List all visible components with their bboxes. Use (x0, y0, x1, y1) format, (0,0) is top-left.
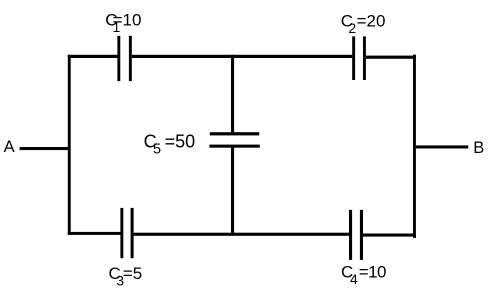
svg-text:A: A (4, 138, 15, 156)
capacitor C4 (349, 210, 363, 260)
capacitor C1 (117, 36, 131, 81)
label C2 = 20 (341, 12, 386, 36)
svg-text:=10: =10 (113, 11, 142, 30)
svg-text:2: 2 (348, 20, 356, 36)
svg-text:4: 4 (350, 271, 358, 287)
wire: top rail, left segment (left branch to C1) (68, 55, 118, 58)
wire: middle vertical branch, lower segment (C5 to bottom-center node) (231, 147, 234, 236)
wire: top rail, middle segment (C1 to C2 through top-center node) (132, 55, 352, 58)
svg-text:=10: =10 (359, 262, 386, 281)
node A terminal label (4, 138, 15, 156)
wire: stub from right branch to node B (416, 145, 468, 148)
svg-text:B: B (473, 139, 484, 157)
wire: bottom rail, left segment (left branch to C3) (68, 232, 121, 235)
svg-text:5: 5 (153, 141, 161, 157)
svg-text:=5: =5 (123, 264, 142, 283)
svg-text:=20: =20 (357, 12, 386, 31)
node B terminal label (473, 139, 484, 157)
wire: top rail, right segment (C2 to right branch) (366, 56, 416, 59)
wire: bottom rail, middle segment (C3 to C4 through bottom-center node) (134, 233, 350, 236)
capacitor C2 (352, 36, 366, 80)
svg-text:=50: =50 (165, 132, 196, 152)
wire: left vertical branch (68, 55, 71, 235)
label C1 = 10 (105, 11, 141, 35)
wire: middle vertical branch, upper segment (top-center node to C5) (231, 55, 234, 133)
wire: stub from node A to left branch (20, 147, 68, 150)
label C3 = 5 (109, 264, 143, 288)
wire: right vertical branch (413, 55, 416, 238)
label C4 = 10 (341, 262, 386, 287)
wire: bottom rail, right segment (C4 to right branch) (363, 234, 416, 237)
capacitor C5 (209, 132, 259, 148)
label C5 = 50 (144, 132, 196, 158)
capacitor C3 (120, 208, 133, 258)
